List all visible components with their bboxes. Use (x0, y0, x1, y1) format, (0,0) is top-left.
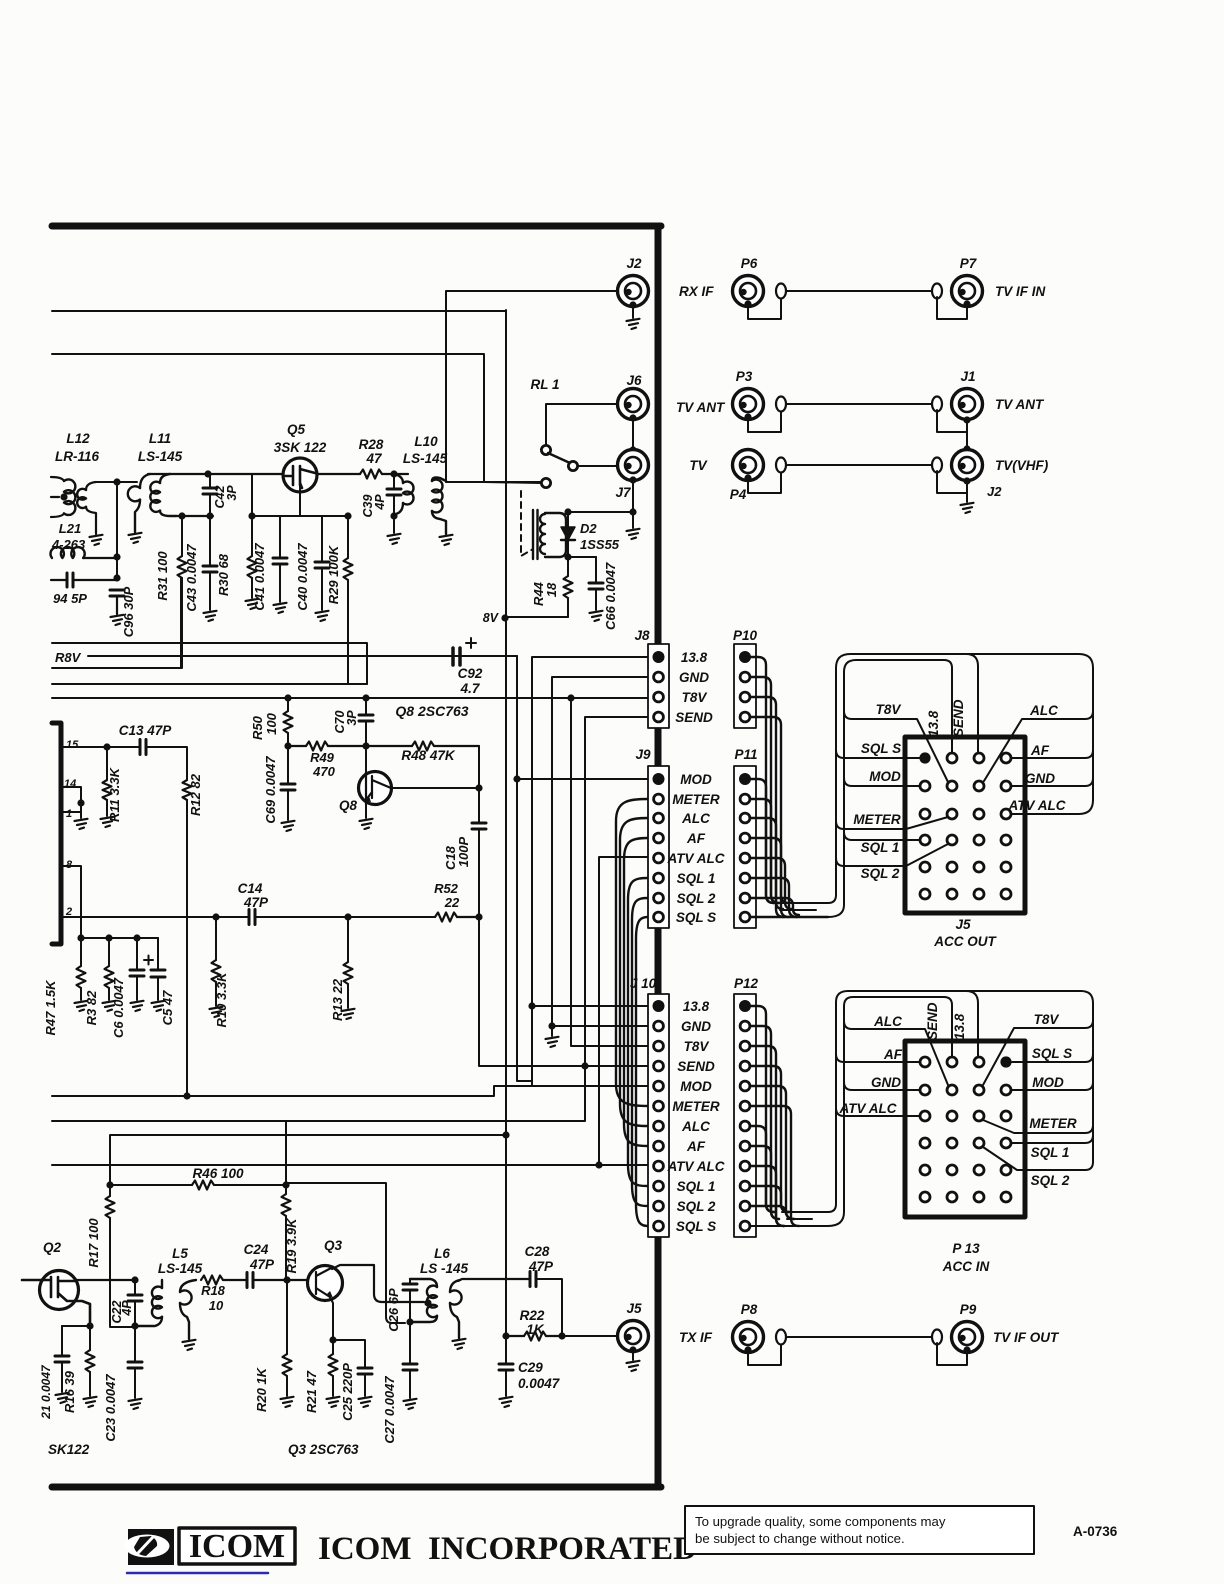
ground R30 (246, 599, 259, 609)
wire ACC IN METER branch (983, 1120, 1093, 1133)
connector J5 pin r2c2 (947, 781, 957, 791)
wire P10 curl 2 (750, 677, 779, 903)
ground C5 (152, 1001, 165, 1011)
svg-text:8V: 8V (483, 611, 500, 625)
svg-text:D2: D2 (580, 521, 597, 536)
capacitor C92 electrolytic (453, 648, 460, 665)
resistor R48 (366, 745, 412, 747)
connector J5 pin r4c3 (974, 835, 984, 845)
svg-text:TV IF IN: TV IF IN (995, 284, 1046, 299)
svg-text:AF: AF (1030, 743, 1050, 758)
svg-text:TV ANT: TV ANT (995, 397, 1045, 412)
wire bus y668 to R31 (52, 578, 181, 668)
wire J1 to J2 link (963, 416, 970, 423)
ground Q8 (360, 819, 373, 829)
svg-text:LS-145: LS-145 (403, 451, 448, 466)
svg-text:AF: AF (686, 831, 706, 846)
svg-text:ICOM: ICOM (189, 1528, 285, 1565)
svg-text:SQL S: SQL S (676, 910, 716, 925)
resistor R47 (80, 938, 82, 966)
svg-text:R29 100K: R29 100K (326, 544, 341, 604)
connector P13 pin r5c2 (947, 1165, 957, 1175)
svg-text:P10: P10 (733, 628, 758, 643)
capacitor C41 (279, 516, 281, 558)
svg-text:1SS55: 1SS55 (580, 537, 620, 552)
svg-text:R16 39: R16 39 (62, 1370, 77, 1413)
svg-text:C69 0.0047: C69 0.0047 (263, 756, 278, 824)
ground J2 (632, 305, 634, 318)
svg-text:Q8: Q8 (339, 798, 358, 813)
wire P12 curls (750, 1006, 774, 1212)
capacitor C39 (393, 474, 395, 489)
wire MOD J9 row (517, 778, 648, 780)
svg-text:SQL 1: SQL 1 (677, 1179, 716, 1194)
ground C39 (393, 516, 395, 533)
svg-text:SQL S: SQL S (1032, 1046, 1072, 1061)
connector J5 pin r6c1 (920, 889, 930, 899)
wire pin8 node rail (81, 937, 158, 939)
svg-text:P7: P7 (960, 256, 978, 271)
connector P13 ACC IN box (905, 1041, 1025, 1217)
ground R16 (84, 1397, 97, 1407)
jack J1 (952, 389, 983, 420)
connector J10 pin METER (654, 1101, 664, 1111)
wire y516 rail under Q5 (252, 515, 348, 517)
svg-text:METER: METER (672, 1099, 720, 1114)
svg-text:MOD: MOD (680, 772, 712, 787)
capacitor C94 (67, 573, 73, 587)
svg-text:47P: 47P (249, 1257, 275, 1272)
svg-text:47P: 47P (528, 1259, 554, 1274)
wire SQL1 J9-J10 (628, 878, 648, 1186)
inductor L12 (51, 477, 64, 481)
jack J5 (618, 1321, 649, 1352)
wire C13 to R12 (146, 747, 187, 780)
inductor L6 (410, 1279, 437, 1287)
svg-text:SEND: SEND (951, 699, 966, 737)
svg-text:SQL S: SQL S (676, 1219, 716, 1234)
ground C43 (204, 611, 217, 621)
connector P13 pin r6c3 (974, 1192, 984, 1202)
jack P3 (733, 389, 764, 420)
svg-text:R8V: R8V (55, 650, 82, 665)
wire C14 node to R52 (348, 916, 435, 918)
connector P13 pin r2c2 (947, 1085, 957, 1095)
wire GND from J8 down to J10 (552, 677, 648, 1026)
connector J10 pin MOD (654, 1081, 664, 1091)
wire L6 to C28 (458, 1279, 530, 1281)
wire R48 to collector node (478, 746, 480, 788)
svg-text:J9: J9 (635, 747, 651, 762)
wire R8V jog to J10 MOD (517, 779, 532, 1081)
svg-text:R31 100: R31 100 (155, 551, 170, 601)
wire ACC OUT SQL1 branch (844, 832, 920, 840)
svg-text:94 5P: 94 5P (53, 591, 87, 606)
svg-text:ALC: ALC (681, 811, 710, 826)
svg-text:R21 47: R21 47 (304, 1370, 319, 1413)
capacitor C42 (209, 474, 211, 488)
notice box (685, 1506, 1034, 1554)
svg-text:GND: GND (679, 670, 709, 685)
svg-text:C29: C29 (518, 1360, 543, 1375)
svg-text:TV ANT: TV ANT (676, 400, 726, 415)
connector J10 pin GND (654, 1021, 664, 1031)
wire P8 to P9 (787, 1336, 932, 1338)
wire P12 bundle riser 2 (828, 1006, 844, 1226)
plug at P3 (748, 410, 781, 432)
wire ACC OUT top rail inner (844, 660, 952, 753)
wire SQL2 J9-J10 (632, 898, 648, 1206)
connector J9 pin ALC (654, 813, 664, 823)
svg-text:C96 30P: C96 30P (121, 586, 136, 637)
connector P11 pin SQL S (740, 912, 750, 922)
svg-text:T8V: T8V (682, 690, 708, 705)
svg-text:C13 47P: C13 47P (119, 723, 173, 738)
svg-text:L5: L5 (172, 1246, 188, 1261)
svg-text:P8: P8 (741, 1302, 758, 1317)
connector J5 pin r1c3 (974, 753, 984, 763)
resistor R20 (286, 1280, 288, 1354)
wire bus y684 (52, 683, 367, 685)
ground GND line (551, 1026, 553, 1036)
connector P12 pin SQL 2 (740, 1201, 750, 1211)
svg-text:C92: C92 (458, 666, 483, 681)
wire Q5 gate rail (251, 474, 253, 516)
connector J5 pin r1c1 (919, 752, 930, 763)
ground R47 (75, 1001, 88, 1011)
svg-text:L12: L12 (66, 431, 90, 446)
relay armature (548, 453, 570, 463)
svg-text:47: 47 (365, 451, 383, 466)
svg-text:MOD: MOD (1032, 1075, 1064, 1090)
resistor R49 (288, 745, 306, 747)
connector P13 pin r6c4 (1001, 1192, 1011, 1202)
connector P10 pin GND (740, 672, 750, 682)
connector P11 pin AF (740, 833, 750, 843)
svg-text:0.0047: 0.0047 (518, 1376, 561, 1391)
svg-text:13.8: 13.8 (952, 1013, 967, 1040)
inductor L5 (161, 1280, 163, 1288)
transistor Q3 (308, 1266, 343, 1301)
wire bundle bottom to riser 2 (828, 672, 844, 917)
svg-text:R49: R49 (310, 750, 335, 765)
ground C41 (274, 603, 287, 613)
resistor R16 (89, 1326, 91, 1350)
connector P13 pin r2c4 (1001, 1085, 1011, 1095)
wire R22 to J5 (562, 1335, 617, 1337)
wire P3 to J1 (787, 403, 932, 405)
wire T8V drop to J10 (571, 698, 648, 1046)
svg-text:C5 47: C5 47 (160, 990, 175, 1025)
wire P11 curl 7 (750, 898, 799, 915)
connector P12 pin ATV ALC (740, 1161, 750, 1171)
wire ACC IN GND branch (844, 1082, 920, 1090)
capacitor C29 (505, 1336, 507, 1364)
svg-text:SEND: SEND (675, 710, 713, 725)
inductor L10 (394, 474, 403, 483)
relay coil RL1 (533, 510, 538, 559)
svg-text:R52: R52 (434, 881, 459, 896)
pin 15 wire (61, 746, 140, 748)
svg-text:T8V: T8V (1034, 1012, 1060, 1027)
connector P13 pin r5c3 (974, 1165, 984, 1175)
svg-text:C25 220P: C25 220P (340, 1363, 355, 1421)
connector J5 pin r4c1 (920, 835, 930, 845)
svg-text:C41 0.0047: C41 0.0047 (252, 543, 267, 611)
capacitor C96 (110, 590, 124, 596)
resistor R46 (110, 1184, 192, 1186)
wire bus R8V (88, 655, 517, 657)
wire ACC OUT METER branch (836, 817, 948, 829)
resistor R18 (201, 1276, 223, 1285)
svg-text:R3 82: R3 82 (84, 990, 99, 1025)
svg-text:TV(VHF): TV(VHF) (995, 458, 1049, 473)
connector P13 pin r1c1 (920, 1057, 930, 1067)
svg-text:SQL S: SQL S (861, 741, 901, 756)
transistor Q5 FET (283, 458, 317, 492)
svg-text:P11: P11 (734, 747, 757, 762)
svg-text:13.8: 13.8 (926, 710, 941, 737)
svg-text:P 13: P 13 (952, 1241, 980, 1256)
ground R11 (101, 817, 114, 827)
connector P13 pin r2c3 (974, 1085, 984, 1095)
capacitor C25 (333, 1340, 365, 1368)
svg-text:R18: R18 (201, 1283, 226, 1298)
wire ACC IN MOD branch (1011, 1082, 1093, 1090)
svg-text:C14: C14 (238, 881, 263, 896)
resistor R12 (183, 780, 192, 800)
svg-text:AF: AF (686, 1139, 706, 1154)
svg-text:Q8 2SC763: Q8 2SC763 (395, 703, 468, 719)
ground C29 (500, 1397, 513, 1407)
connector J9 pin MOD (653, 773, 665, 785)
svg-text:C26 6P: C26 6P (386, 1288, 401, 1332)
svg-text:C43 0.0047: C43 0.0047 (184, 544, 199, 612)
wire R12 down to MOD bus (186, 800, 188, 1096)
resistor R3 (108, 938, 110, 966)
wire 8V to R44 (505, 616, 568, 618)
connector J5 pin r4c2 (947, 835, 957, 845)
svg-text:C66 0.0047: C66 0.0047 (603, 562, 618, 630)
wire L10 to relay (446, 481, 542, 483)
svg-text:LS -145: LS -145 (420, 1261, 469, 1276)
connector J9 pin METER (654, 794, 664, 804)
svg-text:15: 15 (66, 739, 79, 751)
ground C21 (56, 1393, 69, 1403)
connector P12 pin 13.8 (739, 1000, 751, 1012)
relay contact common (568, 461, 577, 470)
capacitor C6 (136, 938, 138, 970)
connector P11 pin ATV ALC (740, 853, 750, 863)
wire J6 to J7 (632, 418, 634, 450)
jack P8 (733, 1322, 764, 1353)
resistor R19 (285, 1121, 287, 1194)
connector J5 pin r5c4 (1001, 862, 1011, 872)
wire ACC IN AF branch (836, 1054, 920, 1062)
svg-text:SQL 2: SQL 2 (1031, 1173, 1070, 1188)
ground L12 secondary (90, 535, 103, 545)
connector P13 pin r3c2 (947, 1111, 957, 1121)
svg-text:J8: J8 (634, 628, 650, 643)
svg-text:4.7: 4.7 (460, 681, 481, 696)
svg-text:22: 22 (444, 895, 460, 910)
connector J5 pin r2c3 (974, 781, 984, 791)
connector J5 ACC OUT box (905, 737, 1025, 913)
svg-text:METER: METER (853, 812, 901, 827)
svg-text:L11: L11 (149, 431, 171, 446)
connector P13 pin r5c4 (1001, 1165, 1011, 1175)
pin 8 wire (61, 866, 81, 938)
connector P10 pin T8V (740, 692, 750, 702)
inductor L21 (50, 547, 84, 558)
wire Q3 collector (332, 1265, 424, 1302)
capacitor C22 (134, 1280, 136, 1295)
ground C40 (316, 611, 329, 621)
svg-text:SEND: SEND (677, 1059, 715, 1074)
svg-text:R50: R50 (250, 715, 265, 740)
wire MOD J10 row (52, 1086, 648, 1096)
svg-text:C40 0.0047: C40 0.0047 (295, 543, 310, 611)
wire ACC IN 13.8 drop (966, 991, 978, 1057)
connector J8 pin SEND (654, 712, 664, 722)
wire J7 ground drop (632, 480, 634, 512)
svg-text:J2: J2 (987, 484, 1002, 499)
svg-text:L21: L21 (59, 521, 81, 536)
connector P10 pin 13.8 (739, 651, 751, 663)
svg-text:R28: R28 (359, 437, 384, 452)
connector P11 pin SQL 1 (740, 873, 750, 883)
ground R20 (281, 1397, 294, 1407)
svg-text:3P: 3P (225, 485, 239, 501)
connector J8 (648, 644, 669, 728)
connector J10 pin SQL 1 (654, 1181, 664, 1191)
svg-text:GND: GND (871, 1075, 901, 1090)
plug at J1 (932, 397, 942, 412)
wire junction drop x117 (116, 482, 118, 578)
resistor R31 (181, 516, 183, 556)
svg-text:SQL 2: SQL 2 (861, 866, 900, 881)
svg-text:To upgrade quality, some compo: To upgrade quality, some components may (695, 1514, 946, 1529)
svg-text:R17 100: R17 100 (86, 1218, 101, 1268)
svg-text:MOD: MOD (869, 769, 901, 784)
schematic border top (52, 223, 661, 230)
wire bus y312 to 8V drop (52, 311, 506, 618)
jack J6 (618, 389, 649, 420)
plug at P7 (932, 284, 942, 299)
connector P13 pin r5c1 (920, 1165, 930, 1175)
ground R3 (103, 1001, 116, 1011)
svg-text:C23 0.0047: C23 0.0047 (103, 1374, 118, 1442)
connector J10 pin SQL 2 (654, 1201, 664, 1211)
wire ACC IN ATV ALC branch (836, 1108, 920, 1116)
connector J5 pin r1c2 (947, 753, 957, 763)
plug at right J2 (932, 458, 942, 473)
connector J5 pin r6c3 (974, 889, 984, 899)
svg-text:J1: J1 (960, 369, 975, 384)
ground C66 (590, 611, 603, 621)
svg-text:A-0736: A-0736 (1073, 1524, 1118, 1539)
svg-text:GND: GND (1025, 771, 1055, 786)
wire bus T8V y698 (52, 697, 648, 699)
wire SEND J10 row (479, 917, 648, 1066)
svg-text:1: 1 (66, 808, 72, 820)
resistor R28 (317, 473, 360, 475)
wire ACC OUT AF branch (1011, 750, 1093, 758)
wire SEND from J8 down (52, 717, 648, 1121)
wire P11 curl 6 (750, 878, 797, 917)
svg-text:13.8: 13.8 (681, 650, 708, 665)
ground L6 (453, 1339, 466, 1349)
ground L10 secondary (440, 535, 453, 545)
relay contact upper (546, 404, 617, 446)
wire bundle bottom mid (780, 909, 816, 911)
svg-text:470: 470 (312, 764, 335, 779)
svg-text:J5: J5 (955, 917, 971, 932)
svg-text:ALC: ALC (873, 1014, 902, 1029)
wire bus y643 (52, 643, 367, 684)
svg-text:R22: R22 (520, 1308, 545, 1323)
wire METER J9-J10 (616, 799, 648, 1106)
connector P12 pin SQL 1 (740, 1181, 750, 1191)
connector P12 pin METER (740, 1101, 750, 1111)
resistor R10 (215, 917, 217, 960)
capacitor C23 (134, 1326, 136, 1362)
wire P11 curl 4 (750, 838, 789, 903)
schematic border right (655, 226, 662, 1487)
svg-text:C27 0.0047: C27 0.0047 (382, 1376, 397, 1444)
svg-text:P4: P4 (730, 487, 747, 502)
connector P12 pin SEND (740, 1061, 750, 1071)
svg-text:ATV ALC: ATV ALC (1008, 798, 1066, 813)
ground J2 right (966, 481, 968, 502)
resistor R50 (287, 698, 289, 711)
connector J5 pin r2c4 (1001, 781, 1011, 791)
connector J10 pin T8V (654, 1041, 664, 1051)
connector P13 pin r1c4 (1000, 1056, 1011, 1067)
svg-text:P6: P6 (741, 256, 758, 271)
capacitor C66 (568, 556, 596, 558)
svg-text:RX IF: RX IF (679, 284, 714, 299)
resistor R22 (524, 1332, 546, 1341)
connector P13 pin r1c3 (974, 1057, 984, 1067)
capacitor C40 (321, 516, 323, 562)
wire ACC IN top rail outer (836, 991, 1093, 1162)
plug at P4 (748, 471, 781, 493)
wire ACC OUT SQL2 branch (836, 844, 948, 866)
resistor R21 (332, 1340, 334, 1354)
svg-text:SK122: SK122 (48, 1442, 90, 1457)
svg-text:4P: 4P (373, 494, 387, 511)
connector J10 pin ATV ALC (654, 1161, 664, 1171)
capacitor C18 (478, 788, 480, 823)
wire L12 to L11 top (96, 481, 137, 483)
plug at P9 (932, 1330, 942, 1345)
wire 8V down to R22/C29 (505, 1135, 507, 1364)
svg-text:TX IF: TX IF (679, 1330, 713, 1345)
svg-text:ACC IN: ACC IN (942, 1259, 990, 1274)
wire ACC OUT MOD branch (844, 778, 920, 786)
svg-text:100: 100 (264, 712, 279, 734)
connector P12 (734, 994, 756, 1237)
svg-text:Q3: Q3 (324, 1238, 343, 1253)
connector J5 pin r2c1 (920, 781, 930, 791)
svg-text:J2: J2 (626, 256, 642, 271)
svg-text:LS-145: LS-145 (158, 1261, 203, 1276)
pin 1 wire (61, 803, 81, 812)
connector P13 pin r1c2 (947, 1057, 957, 1067)
wire relay coil top to J7 ground node (567, 511, 633, 513)
svg-text:3P: 3P (345, 710, 359, 726)
